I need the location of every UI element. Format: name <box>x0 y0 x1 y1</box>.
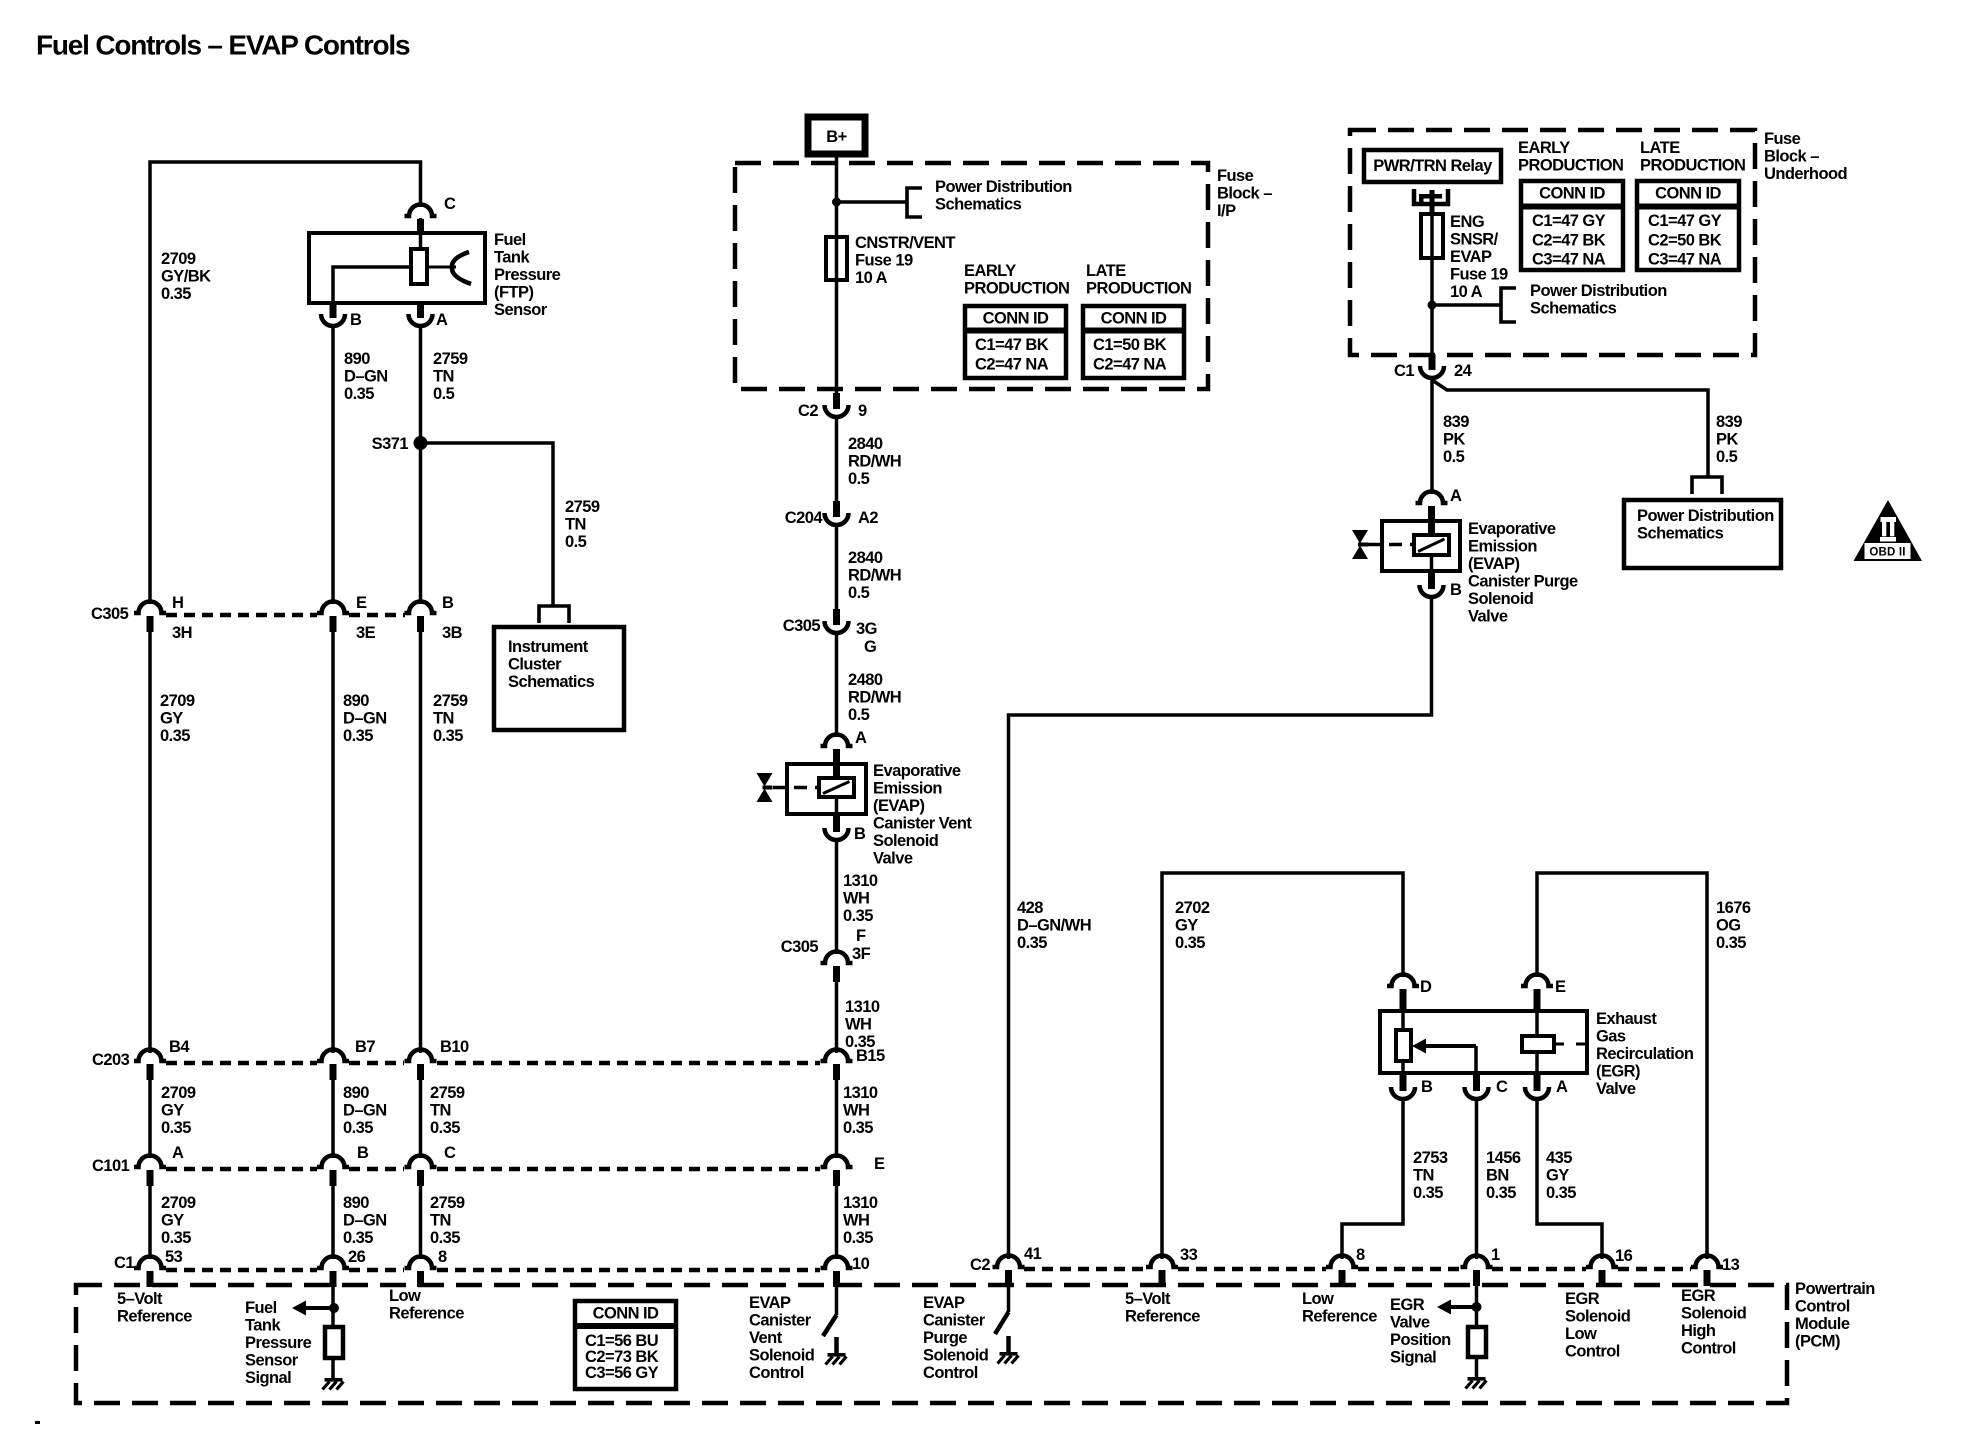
svg-text:53: 53 <box>165 1248 183 1266</box>
wire from B+ through CNSTR/VENT fuse to C2 pin 9 <box>835 154 839 394</box>
connector PCM C1 pin 26 <box>317 1257 349 1269</box>
svg-text:C1: C1 <box>1394 362 1414 380</box>
connector PCM C2 pin 13 <box>1691 1256 1723 1268</box>
connector PCM C2 pin 8 <box>1326 1256 1358 1268</box>
wire 890 D-GN from C305 E to C203 B7 <box>331 632 335 1053</box>
connector pin E of EGR valve <box>1521 975 1553 986</box>
connector pin A of EGR valve <box>1534 1073 1541 1088</box>
relay PWR/TRN Relay box <box>1364 150 1501 182</box>
battery feed B+ terminal <box>808 117 865 154</box>
fuse ENG SNSR/EVAP Fuse 19 10A <box>1421 214 1443 258</box>
svg-text:8: 8 <box>1356 1246 1365 1264</box>
connector PCM C1 pin 10 <box>821 1257 853 1269</box>
relay output contact symbol <box>1414 189 1448 204</box>
wire 2840 RD/WH from C204 A2 to C305 3G <box>835 526 839 609</box>
conn id table late production underhood <box>1637 181 1739 270</box>
conn id table early production underhood <box>1521 181 1623 270</box>
connector PCM C2 pin 16 <box>1586 1256 1618 1268</box>
svg-text:PWR/TRN Relay: PWR/TRN Relay <box>1373 157 1493 175</box>
wire 2759 TN from C203 B10 to C101 C <box>419 1080 423 1158</box>
EGR solenoid coil <box>1535 1011 1539 1036</box>
svg-text:C204: C204 <box>785 509 824 527</box>
wire 2759 TN from FTP A to splice S371 <box>419 327 423 443</box>
off-page reference to power distribution schematics (underhood) <box>1501 288 1516 322</box>
svg-text:B4: B4 <box>169 1038 190 1056</box>
connector pin C of EGR valve <box>1473 1073 1480 1088</box>
svg-text:A: A <box>1556 1078 1568 1096</box>
svg-text:OBD II: OBD II <box>1869 547 1905 559</box>
svg-text:A: A <box>172 1144 184 1162</box>
vent solenoid valve symbol <box>757 773 773 787</box>
connector C203 pin B4 <box>134 1050 166 1062</box>
wire 2759 TN from C101 C to PCM C1-8 <box>419 1186 423 1259</box>
pin A stub into purge solenoid box <box>1428 506 1435 535</box>
svg-text:G: G <box>864 638 876 656</box>
connector PCM C1 pin 8 <box>405 1257 437 1269</box>
connector C2 pin 9 (fuse block I/P) <box>833 393 840 409</box>
wire 839 PK from C1-24 down to purge solenoid pin A <box>1430 379 1434 494</box>
fuse block underhood dashed box <box>1350 130 1755 355</box>
svg-text:E: E <box>1555 978 1566 996</box>
svg-text:C203: C203 <box>92 1051 130 1069</box>
connector pin B of EVAP vent solenoid <box>833 814 840 829</box>
svg-text:CONN ID: CONN ID <box>593 1305 659 1323</box>
svg-text:B: B <box>1421 1078 1433 1096</box>
svg-text:9: 9 <box>858 402 867 420</box>
svg-text:F: F <box>856 927 866 945</box>
svg-text:B: B <box>1450 581 1462 599</box>
svg-text:8: 8 <box>438 1248 447 1266</box>
purge solenoid valve symbol <box>1352 530 1368 544</box>
FTP sensor signal node: junction arrow resistor and ground <box>331 1286 335 1326</box>
wire 2840 RD/WH from C2-9 to C204 A2 <box>835 418 839 501</box>
connector PCM C2 pin 1 <box>1461 1256 1493 1268</box>
connector row C1 of PCM dashed line <box>166 1268 317 1273</box>
connector row C305 dashed line <box>166 613 317 618</box>
wire 1310 WH from vent solenoid B to C305 F <box>835 841 839 954</box>
svg-text:E: E <box>874 1155 885 1173</box>
svg-text:16: 16 <box>1615 1247 1633 1265</box>
power distribution schematics box <box>1624 500 1781 568</box>
svg-text:C1: C1 <box>114 1254 134 1272</box>
wire 2759 TN from C305 B to C203 B10 <box>419 632 423 1053</box>
off-page connector into instrument cluster <box>539 606 569 623</box>
svg-text:Fuel Controls – EVAP Controls: Fuel Controls – EVAP Controls <box>36 30 410 61</box>
svg-text:C1=50 BKC2=47 NA: C1=50 BKC2=47 NA <box>1093 336 1167 374</box>
svg-text:B+: B+ <box>826 128 846 146</box>
wire 890 D-GN from C101 B to PCM C1-26 <box>331 1186 335 1259</box>
wire 2759 TN from S371 to C305 B <box>419 443 423 604</box>
connector C203 pin B10 <box>405 1050 437 1062</box>
svg-text:CONN ID: CONN ID <box>1101 310 1167 328</box>
connector row C101 dashed line <box>166 1167 317 1172</box>
svg-text:C: C <box>444 195 456 213</box>
wire 1310 WH from C203 B15 to C101 E <box>835 1080 839 1158</box>
svg-text:H: H <box>172 594 183 612</box>
wire 2709 GY from C203 B4 to C101 A <box>148 1080 152 1158</box>
wire 1676 OG from EGR pin E over and down to PCM C2-13 <box>1537 873 1707 1259</box>
page period mark <box>35 1421 40 1424</box>
connector C305 pin 3G <box>833 609 840 625</box>
connector C305 pin E <box>317 602 349 614</box>
connector C101 pin B <box>317 1156 349 1168</box>
powertrain control module PCM dashed box <box>76 1285 1787 1403</box>
svg-text:C2: C2 <box>970 1256 990 1274</box>
EVAP canister vent solenoid valve box <box>787 764 866 814</box>
svg-text:C305: C305 <box>783 617 821 635</box>
connector pin D of EGR valve <box>1387 975 1419 986</box>
svg-text:D: D <box>1420 978 1432 996</box>
fuel tank pressure sensor box <box>309 233 485 303</box>
svg-text:B: B <box>357 1144 369 1162</box>
conn id table PCM <box>575 1301 676 1389</box>
svg-text:1: 1 <box>1491 1246 1500 1264</box>
EVAP canister vent solenoid control driver switch and ground <box>835 1286 839 1315</box>
svg-text:C101: C101 <box>92 1157 130 1175</box>
svg-text:B15: B15 <box>856 1047 885 1065</box>
off-page reference to power distribution schematics (I/P) <box>837 200 908 204</box>
wire 1456 BN from EGR C to PCM C2-1 <box>1475 1100 1479 1259</box>
svg-text:B: B <box>350 311 362 329</box>
svg-text:3B: 3B <box>442 624 463 642</box>
svg-text:C1=47 BKC2=47 NA: C1=47 BKC2=47 NA <box>975 336 1049 374</box>
conn id table late production I/P <box>1083 306 1184 378</box>
svg-text:13: 13 <box>1722 1256 1740 1274</box>
connector PCM C1 pin 53 <box>134 1257 166 1269</box>
connector C203 pin B15 <box>821 1050 853 1062</box>
svg-text:A2: A2 <box>858 509 878 527</box>
svg-text:CONN ID: CONN ID <box>983 310 1049 328</box>
wire 890 D-GN from FTP B to C305 E <box>331 327 335 604</box>
svg-text:B10: B10 <box>440 1038 469 1056</box>
connector PCM C2 pin 33 <box>1146 1256 1178 1268</box>
connector C305 pin B <box>405 602 437 614</box>
connector C101 pin C <box>405 1156 437 1168</box>
svg-text:B: B <box>854 825 866 843</box>
vent solenoid coil <box>835 764 839 778</box>
svg-text:C2: C2 <box>798 402 818 420</box>
wire 2709 GY from C305 H to C203 B4 <box>148 632 152 1053</box>
splice S371 <box>414 436 428 450</box>
conn id table early production I/P <box>965 306 1066 378</box>
EGR wiper arrow from pin C <box>1412 1039 1426 1054</box>
svg-text:C1=56 BUC2=73 BKC3=56 GY: C1=56 BUC2=73 BKC3=56 GY <box>585 1332 659 1382</box>
svg-text:A: A <box>436 311 448 329</box>
connector C305 pin H <box>134 602 166 614</box>
EVAP canister purge solenoid control driver switch and ground <box>1007 1286 1011 1312</box>
pin E stub into EGR box <box>1534 989 1541 1011</box>
svg-text:E: E <box>356 594 367 612</box>
svg-text:3H: 3H <box>172 624 192 642</box>
connector pin C of FTP sensor <box>405 205 437 216</box>
connector C305 pin F / 3F <box>821 952 853 963</box>
svg-text:33: 33 <box>1180 1246 1198 1264</box>
connector PCM C2 pin 41 <box>993 1256 1025 1268</box>
EGR position sensor potentiometer <box>1401 1011 1405 1030</box>
wire 2753 TN from EGR B to PCM C2-8 <box>1342 1100 1403 1259</box>
svg-text:A: A <box>855 729 867 747</box>
fuse block I/P dashed box <box>735 163 1208 389</box>
wire 890 D-GN from C203 B7 to C101 B <box>331 1080 335 1158</box>
purge solenoid coil <box>1430 521 1434 535</box>
wire 435 GY from EGR A to PCM C2-16 <box>1537 1100 1602 1259</box>
svg-text:26: 26 <box>348 1248 366 1266</box>
OBD II symbol triangle <box>1854 500 1923 561</box>
off-page connector into power distribution schematics box <box>1692 477 1722 494</box>
svg-text:B7: B7 <box>355 1038 375 1056</box>
EVAP canister purge solenoid valve box <box>1382 521 1460 571</box>
junction to power distribution reference (underhood) <box>1428 301 1437 310</box>
wire 2709 GY from C101 A to PCM C1-53 <box>148 1186 152 1259</box>
svg-text:10: 10 <box>852 1255 870 1273</box>
connector pin A of EVAP vent solenoid <box>821 735 853 747</box>
connector row C203 dashed line <box>166 1061 317 1066</box>
pin A stub into vent solenoid box <box>833 749 840 778</box>
connector C204 pin A2 <box>833 501 840 517</box>
svg-text:C1=47 GYC2=47 BKC3=47 NA: C1=47 GYC2=47 BKC3=47 NA <box>1532 212 1606 269</box>
wire 2759 TN branch from S371 to instrument cluster <box>421 443 554 605</box>
svg-text:C305: C305 <box>781 938 819 956</box>
connector C101 pin A <box>134 1156 166 1168</box>
wire from relay through ENG SNSR/EVAP fuse to C1 pin 24 <box>1430 210 1434 354</box>
connector pin B of EGR valve <box>1400 1073 1407 1088</box>
svg-text:S371: S371 <box>372 435 409 453</box>
pin D stub into EGR box <box>1400 989 1407 1011</box>
svg-text:24: 24 <box>1454 362 1473 380</box>
svg-text:3G: 3G <box>856 620 877 638</box>
svg-text:41: 41 <box>1024 1245 1042 1263</box>
svg-text:A: A <box>1450 487 1462 505</box>
connector pin B of EVAP purge solenoid <box>1428 571 1435 586</box>
svg-text:C: C <box>1496 1078 1508 1096</box>
svg-text:CONN ID: CONN ID <box>1655 185 1721 203</box>
wire 1310 WH from C101 E to PCM C1-10 <box>835 1186 839 1259</box>
connector pin B of FTP sensor <box>330 303 337 312</box>
connector pin A of EVAP purge solenoid <box>1416 492 1448 503</box>
svg-text:3E: 3E <box>356 624 376 642</box>
svg-text:CONN ID: CONN ID <box>1539 185 1605 203</box>
EGR valve position signal node: junction arrow resistor and ground <box>1475 1286 1479 1326</box>
instrument cluster schematics box <box>494 627 624 730</box>
wire 839 PK branch to power distribution schematics <box>1432 380 1708 476</box>
connector row C2 of PCM dashed line <box>1024 1267 1146 1272</box>
connector C1 pin 24 (underhood fuse block) <box>1429 354 1436 370</box>
wire 2702 GY from PCM C2-33 up and over to EGR pin D <box>1162 873 1403 1259</box>
exhaust gas recirculation EGR valve box <box>1380 1011 1587 1073</box>
svg-text:C: C <box>444 1144 456 1162</box>
svg-text:3F: 3F <box>852 945 871 963</box>
svg-text:C1=47 GYC2=50 BKC3=47 NA: C1=47 GYC2=50 BKC3=47 NA <box>1648 212 1722 269</box>
connector C101 pin E <box>821 1156 853 1168</box>
svg-text:C305: C305 <box>91 605 129 623</box>
svg-text:B: B <box>442 594 454 612</box>
connector pin A of FTP sensor <box>417 303 424 312</box>
wire 2709 GY/BK from C305 H up and over to FTP sensor pin C <box>150 162 421 604</box>
wire 428 D-GN/WH from purge solenoid B to PCM C2-41 <box>1009 598 1432 1259</box>
fuse CNSTR/VENT Fuse 19 10A <box>826 237 847 280</box>
connector C203 pin B7 <box>317 1050 349 1062</box>
wire 2480 RD/WH from C305 3G to vent solenoid pin A <box>835 634 839 737</box>
FTP transducer element and internal wiring <box>333 267 411 303</box>
junction on B+ feed <box>832 198 841 207</box>
wire 1310 WH from C305 3F to C203 B15 <box>835 982 839 1053</box>
